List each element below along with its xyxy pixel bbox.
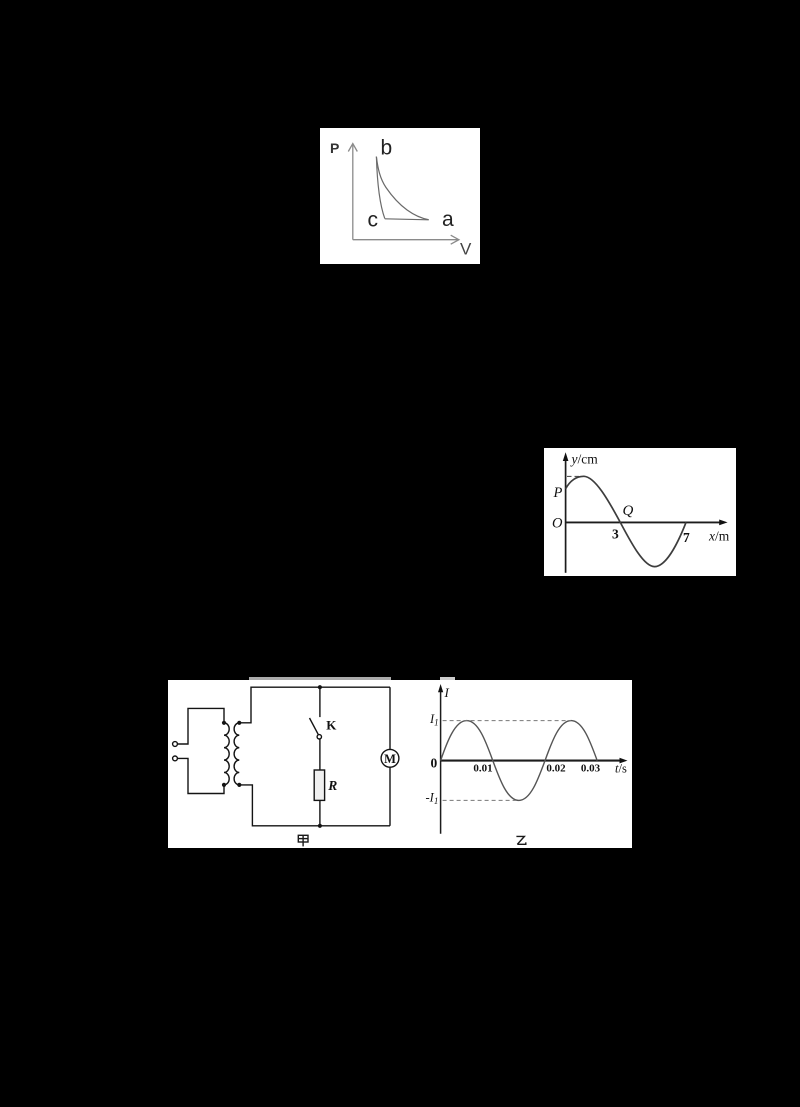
svg-text:0: 0 (431, 756, 438, 771)
V axis (horizontal) (353, 235, 459, 244)
line c to a (385, 219, 429, 220)
dashed line -I1 (443, 799, 519, 801)
junction dot secondary coil bottom (237, 783, 241, 787)
junction dot secondary coil top (237, 721, 241, 725)
svg-text:P: P (553, 485, 563, 501)
svg-text:a: a (442, 208, 454, 231)
wire: upper terminal to primary top (177, 708, 224, 744)
I-t graph: x axis (441, 760, 621, 762)
resistor R body (314, 770, 324, 800)
figure 3: transformer circuit (jia) and I-t graph (yi) panel (168, 680, 632, 848)
gray scan patch above figure 3 right (440, 677, 455, 681)
svg-text:3: 3 (612, 527, 619, 542)
svg-text:c: c (368, 209, 379, 232)
figure 2: wave y-x diagram panel (544, 448, 736, 576)
terminal lower (173, 756, 178, 761)
sine current curve (441, 721, 598, 801)
wave curve (566, 476, 686, 566)
wire: motor to bottom wire (389, 767, 391, 826)
svg-text:P: P (330, 140, 339, 156)
svg-text:K: K (326, 718, 337, 733)
svg-text:O: O (552, 516, 563, 532)
svg-text:V: V (460, 239, 472, 258)
gray scan band above figure 3 (249, 677, 391, 681)
svg-text:t/s: t/s (615, 762, 627, 776)
svg-text:I1: I1 (429, 712, 439, 728)
x axis (566, 521, 722, 523)
junction dot top of switch branch (318, 685, 322, 689)
label jia (CJK drawn) (298, 835, 308, 846)
dashed amplitude tick (567, 475, 580, 477)
secondary coil winding (234, 723, 239, 785)
svg-text:-I1: -I1 (426, 791, 439, 807)
svg-text:M: M (384, 752, 396, 766)
label yi (CJK drawn) (516, 836, 525, 844)
curve b to c (376, 157, 384, 219)
switch K pivot circle (317, 735, 321, 739)
wire: lower terminal to primary bottom (177, 758, 224, 793)
switch K blade (310, 718, 319, 735)
svg-text:Q: Q (623, 503, 634, 519)
svg-text:I: I (444, 685, 450, 700)
svg-text:0.02: 0.02 (546, 763, 566, 775)
junction dot primary coil top (222, 721, 226, 725)
I-t graph: y axis (440, 689, 442, 834)
wire: secondary top to circuit top wire (239, 687, 390, 723)
svg-text:x/m: x/m (708, 529, 730, 544)
y axis (565, 458, 567, 573)
svg-text:R: R (327, 778, 337, 793)
junction dot primary coil bottom (222, 783, 226, 787)
P axis (vertical) (348, 144, 357, 240)
wire: secondary bottom to circuit bottom wire (239, 785, 390, 826)
svg-text:7: 7 (683, 530, 690, 545)
wire: motor branch upper (389, 687, 391, 750)
dashed line +I1 (443, 720, 571, 722)
svg-text:b: b (381, 136, 393, 159)
primary coil winding (224, 723, 229, 785)
wire: switch to resistor (319, 739, 321, 770)
wire: resistor to bottom wire (319, 800, 321, 825)
motor M circle (381, 749, 399, 767)
svg-text:y/cm: y/cm (570, 452, 599, 467)
curve b to a (isotherm) (376, 157, 428, 220)
junction dot bottom of switch branch (318, 824, 322, 828)
svg-text:0.01: 0.01 (473, 763, 492, 775)
svg-text:0.03: 0.03 (581, 763, 601, 775)
figure 1: P-V diagram panel (320, 128, 480, 264)
terminal upper (173, 742, 178, 747)
wire: switch branch upper (319, 687, 321, 717)
